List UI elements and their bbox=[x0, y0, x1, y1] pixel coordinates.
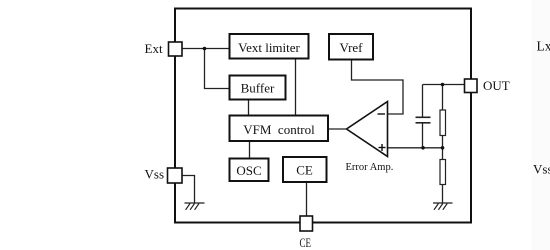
svg-text:OSC: OSC bbox=[236, 163, 261, 178]
svg-text:VFM control: VFM control bbox=[243, 122, 315, 137]
svg-text:CE: CE bbox=[296, 163, 313, 178]
svg-text:Buffer: Buffer bbox=[241, 81, 275, 96]
svg-text:OUT: OUT bbox=[483, 78, 510, 93]
svg-text:Vext limiter: Vext limiter bbox=[238, 40, 300, 55]
svg-text:CE: CE bbox=[300, 235, 312, 250]
svg-text:Ext: Ext bbox=[145, 41, 163, 56]
svg-text:Lx: Lx bbox=[537, 39, 550, 54]
svg-text:Vref: Vref bbox=[339, 40, 363, 55]
svg-text:Vss: Vss bbox=[145, 167, 165, 182]
svg-text:Error Amp.: Error Amp. bbox=[346, 162, 394, 173]
svg-text:Vss: Vss bbox=[533, 162, 550, 177]
